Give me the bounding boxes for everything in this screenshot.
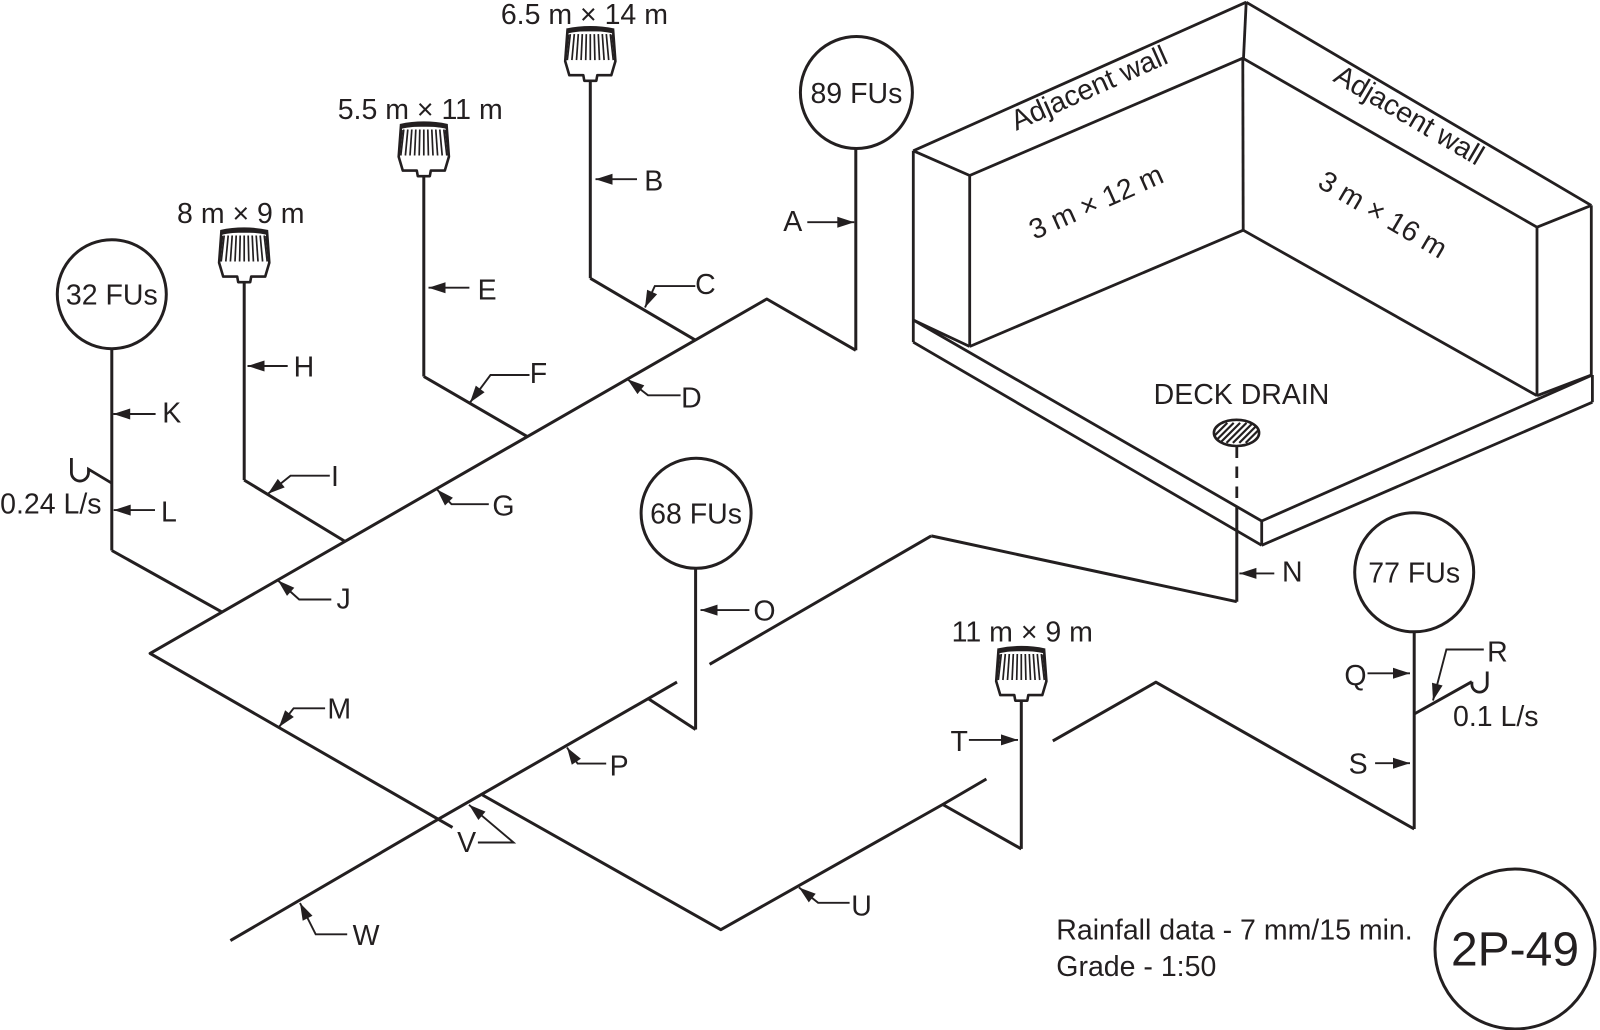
svg-text:5.5 m × 11 m: 5.5 m × 11 m bbox=[338, 94, 503, 126]
svg-text:Rainfall data - 7 mm/15 min.: Rainfall data - 7 mm/15 min. bbox=[1056, 915, 1412, 947]
wire: O branch connector bbox=[648, 699, 695, 730]
svg-text:8 m × 9 m: 8 m × 9 m bbox=[177, 198, 305, 230]
svg-text:A: A bbox=[783, 206, 802, 238]
label U bbox=[799, 888, 872, 923]
roof drain 11 m x 9 m bbox=[996, 648, 1046, 700]
svg-text:0.1 L/s: 0.1 L/s bbox=[1453, 701, 1539, 733]
label C bbox=[645, 269, 716, 307]
roof drain 5.5 m x 11 m bbox=[399, 124, 449, 176]
riser H vertical bbox=[243, 280, 246, 480]
label D bbox=[628, 379, 702, 414]
wire: main run 3 (T crossing stub up to peak3, down to S riser base) bbox=[1053, 682, 1414, 829]
label E bbox=[429, 274, 497, 306]
wire: C branch connector bbox=[590, 278, 695, 340]
label H bbox=[248, 351, 315, 383]
svg-text:I: I bbox=[331, 461, 339, 493]
riser B vertical bbox=[589, 81, 592, 278]
svg-text:11 m × 9 m: 11 m × 9 m bbox=[952, 617, 1093, 649]
deck slab outline bbox=[913, 320, 1592, 545]
label O bbox=[701, 595, 776, 627]
label T bbox=[950, 726, 1018, 758]
svg-text:P: P bbox=[610, 750, 629, 782]
label Q bbox=[1344, 660, 1410, 692]
roof drain 8 m x 9 m bbox=[219, 230, 269, 282]
label R bbox=[1432, 636, 1508, 700]
label B bbox=[596, 166, 664, 198]
svg-text:R: R bbox=[1487, 636, 1508, 668]
label K bbox=[113, 398, 181, 430]
svg-text:K: K bbox=[162, 398, 181, 430]
riser T vertical bbox=[1020, 700, 1023, 849]
fixture hook at 0.24 L/s bbox=[71, 458, 111, 483]
svg-text:M: M bbox=[327, 694, 351, 726]
roof drain 6.5 m x 14 m bbox=[565, 29, 615, 81]
svg-text:J: J bbox=[336, 583, 350, 615]
drawing number 2P-49 bbox=[1435, 869, 1595, 1029]
node 32 FUs bbox=[57, 240, 166, 349]
wire: main run 2 upper piece (peak2 toward O crossing) bbox=[710, 536, 932, 664]
label N bbox=[1239, 556, 1302, 588]
svg-text:V: V bbox=[457, 827, 476, 859]
wire: main run 1 (A riser base > peak > down-left past C,D,F,G,I,J,K to vertex > M segment to V) bbox=[150, 299, 856, 827]
svg-text:C: C bbox=[695, 269, 716, 301]
svg-text:DECK DRAIN: DECK DRAIN bbox=[1154, 379, 1330, 411]
node 68 FUs bbox=[641, 458, 751, 568]
svg-text:U: U bbox=[851, 891, 872, 923]
fixture hook at 0.1 L/s bbox=[1472, 672, 1487, 693]
svg-text:77 FUs: 77 FUs bbox=[1368, 558, 1460, 590]
svg-text:O: O bbox=[753, 595, 775, 627]
node 77 FUs bbox=[1355, 513, 1474, 632]
svg-text:0.24 L/s: 0.24 L/s bbox=[0, 489, 101, 521]
svg-text:B: B bbox=[644, 166, 663, 198]
svg-text:Grade - 1:50: Grade - 1:50 bbox=[1056, 951, 1216, 983]
wire: W outfall segment bbox=[230, 819, 438, 940]
riser A vertical bbox=[854, 149, 857, 351]
riser Q/S vertical (from 77 FUs) bbox=[1413, 632, 1416, 829]
svg-text:68 FUs: 68 FUs bbox=[650, 499, 742, 531]
svg-text:S: S bbox=[1349, 749, 1368, 781]
svg-text:32 FUs: 32 FUs bbox=[66, 280, 158, 312]
svg-text:G: G bbox=[492, 490, 514, 522]
svg-text:2P-49: 2P-49 bbox=[1451, 924, 1579, 977]
node 89 FUs bbox=[800, 37, 912, 149]
label F bbox=[470, 358, 547, 402]
wire: main run 2 right piece (peak2 to N base, shallow grade) bbox=[931, 536, 1237, 602]
label I bbox=[268, 461, 339, 494]
label V bbox=[457, 805, 514, 859]
label W bbox=[300, 903, 380, 952]
riser O vertical (from 68 FUs) bbox=[694, 568, 697, 729]
deck drain dashed riser (hidden below deck) bbox=[1235, 447, 1238, 508]
svg-text:L: L bbox=[161, 497, 177, 529]
svg-text:89 FUs: 89 FUs bbox=[810, 78, 902, 110]
wire: T branch connector bbox=[943, 805, 1022, 849]
wire: I branch connector bbox=[244, 480, 345, 541]
label P bbox=[567, 748, 629, 783]
label M bbox=[279, 694, 351, 728]
svg-text:W: W bbox=[353, 920, 380, 952]
wire: K branch connector bbox=[112, 551, 222, 613]
label J bbox=[278, 581, 351, 616]
svg-text:Q: Q bbox=[1344, 660, 1366, 692]
wire: U run (V junction down to low vertex, up past T vertex, stub at T crossing) bbox=[483, 779, 987, 930]
riser E vertical bbox=[422, 174, 425, 376]
label S bbox=[1349, 749, 1410, 781]
label G bbox=[437, 490, 515, 523]
wire: F branch connector bbox=[424, 377, 528, 437]
label A bbox=[783, 206, 854, 238]
svg-text:H: H bbox=[294, 351, 315, 383]
label L bbox=[114, 497, 177, 529]
left adjacent wall outline bbox=[913, 2, 1246, 346]
pipe N vertical (below slab) bbox=[1235, 507, 1238, 602]
svg-text:F: F bbox=[530, 358, 547, 390]
svg-text:T: T bbox=[950, 726, 967, 758]
right adjacent wall outline bbox=[1243, 2, 1592, 396]
svg-text:N: N bbox=[1282, 556, 1303, 588]
svg-text:D: D bbox=[681, 382, 702, 414]
wire: main run 2 lower piece (P segment through O junction to V) bbox=[438, 682, 677, 819]
riser K vertical (from 32 FUs) bbox=[110, 349, 113, 551]
svg-text:6.5 m × 14 m: 6.5 m × 14 m bbox=[501, 0, 668, 31]
deck drain hatched ellipse bbox=[1201, 420, 1272, 446]
svg-text:E: E bbox=[478, 274, 497, 306]
wire: R branch connector bbox=[1414, 682, 1472, 714]
